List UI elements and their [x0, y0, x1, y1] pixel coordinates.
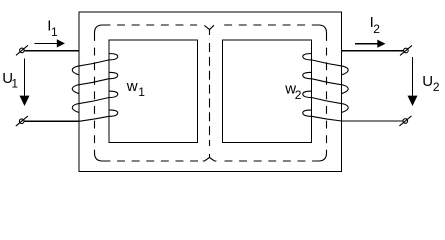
svg-text:1: 1	[11, 77, 18, 91]
current arrow I2	[355, 40, 386, 48]
voltage arrow U1	[20, 58, 30, 106]
wire top-left	[24, 50, 79, 52]
core window right	[223, 40, 312, 143]
wire top-right	[342, 50, 404, 52]
transformer core outer outline	[79, 12, 342, 172]
flux path centre limb dashed line	[209, 43, 211, 146]
winding W1	[72, 54, 117, 122]
wire bottom-right	[342, 120, 404, 122]
terminal bottom-right	[399, 116, 411, 126]
svg-text:w: w	[126, 78, 138, 95]
wire bottom-left	[24, 120, 79, 122]
svg-text:1: 1	[138, 85, 145, 99]
svg-text:1: 1	[51, 25, 58, 39]
flux path Y junction bottom	[203, 154, 217, 161]
core window left	[109, 40, 198, 143]
winding W2	[303, 54, 348, 122]
svg-text:2: 2	[433, 80, 440, 94]
terminal top-left	[16, 45, 28, 55]
svg-text:2: 2	[373, 22, 380, 36]
svg-text:U: U	[422, 73, 433, 90]
current arrow I1	[35, 39, 65, 47]
flux path dashed loop	[95, 25, 327, 161]
flux path Y junction top	[204, 25, 214, 35]
voltage arrow U2	[408, 57, 418, 106]
terminal bottom-left	[16, 116, 28, 126]
svg-text:2: 2	[295, 88, 302, 102]
terminal top-right	[400, 45, 412, 55]
